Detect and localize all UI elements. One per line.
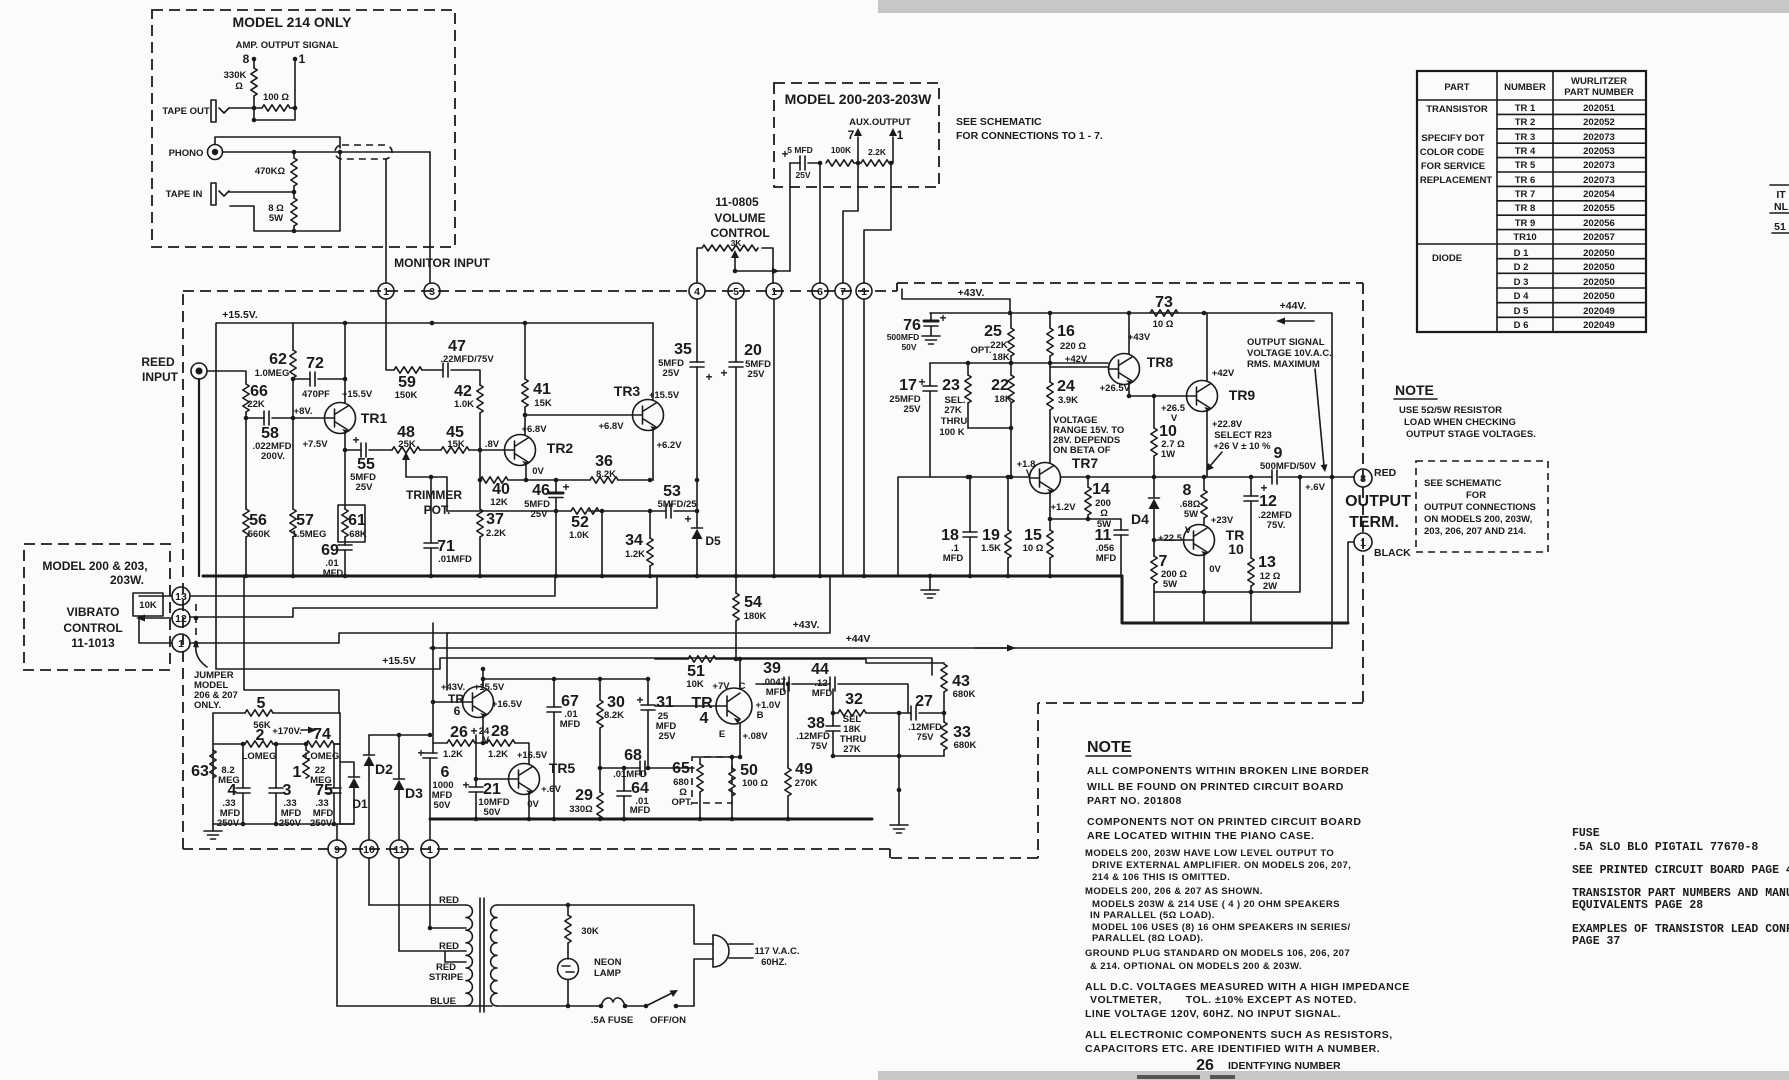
svg-text:THRU: THRU <box>941 416 968 427</box>
svg-text:100 Ω: 100 Ω <box>263 92 289 103</box>
svg-text:69: 69 <box>321 542 339 559</box>
svg-text:50: 50 <box>740 762 758 779</box>
svg-text:202056: 202056 <box>1583 218 1615 229</box>
svg-text:ALL D.C. VOLTAGES MEASURED WIT: ALL D.C. VOLTAGES MEASURED WITH A HIGH I… <box>1085 981 1410 993</box>
resistor 43 680K <box>941 664 947 692</box>
resistor 8 .68ohm 5W <box>1203 477 1205 490</box>
wire TR1 collector <box>344 323 346 403</box>
capacitor 53 5MFD/25 <box>666 504 671 518</box>
svg-text:3.9K: 3.9K <box>1058 395 1078 406</box>
svg-text:REPLACEMENT: REPLACEMENT <box>1420 175 1493 186</box>
svg-text:25V: 25V <box>659 731 677 742</box>
svg-text:TR8: TR8 <box>1147 354 1174 370</box>
svg-text:PART NUMBER: PART NUMBER <box>1564 87 1634 98</box>
svg-text:SEE SCHEMATIC: SEE SCHEMATIC <box>956 116 1042 128</box>
svg-text:58: 58 <box>261 425 279 442</box>
svg-text:13: 13 <box>175 591 187 603</box>
svg-text:75V: 75V <box>811 741 829 752</box>
svg-text:VIBRATO: VIBRATO <box>67 605 120 619</box>
terminal 8 RED <box>1354 469 1372 487</box>
svg-text:3: 3 <box>429 286 435 298</box>
svg-text:100 Ω: 100 Ω <box>742 778 768 789</box>
svg-text:66: 66 <box>250 383 268 400</box>
svg-text:202050: 202050 <box>1583 248 1615 259</box>
svg-text:OFF/ON: OFF/ON <box>650 1015 686 1026</box>
wire shield down <box>198 379 200 576</box>
svg-text:5: 5 <box>257 695 266 712</box>
resistor 33 680K <box>943 713 945 722</box>
resistor 57 1.5MEG <box>292 418 294 509</box>
wire TR10 emitter <box>1203 556 1205 593</box>
svg-text:+: + <box>684 512 691 526</box>
svg-text:56: 56 <box>249 512 267 529</box>
resistor 25 22K 18K <box>1010 313 1012 363</box>
ground lower right <box>890 825 908 833</box>
capacitor 69 .01MFD <box>344 537 346 545</box>
wire network to circle 9 <box>336 824 338 840</box>
wire tap <box>428 926 433 931</box>
svg-text:IDENTFYING NUMBER: IDENTFYING NUMBER <box>1228 1060 1341 1072</box>
svg-text:D5: D5 <box>705 534 721 548</box>
capacitor 44 .12MFD <box>830 677 835 691</box>
svg-text:49: 49 <box>795 761 813 778</box>
resistor 37 2.2K <box>477 509 483 537</box>
svg-text:203W.: 203W. <box>110 573 144 587</box>
resistor 23 SEL <box>967 363 969 428</box>
svg-text:7: 7 <box>840 286 846 298</box>
svg-text:52: 52 <box>571 514 589 531</box>
svg-text:.5A FUSE: .5A FUSE <box>591 1015 633 1026</box>
svg-text:27: 27 <box>915 693 933 710</box>
pot wiper <box>734 257 736 271</box>
svg-text:+43V.: +43V. <box>958 287 985 299</box>
wire <box>229 107 262 109</box>
svg-text:+16.5V: +16.5V <box>517 750 548 761</box>
svg-text:+.6V: +.6V <box>1305 482 1325 493</box>
svg-text:D4: D4 <box>1131 511 1149 527</box>
svg-text:28: 28 <box>491 723 509 740</box>
svg-text:E: E <box>719 729 725 740</box>
capacitor 39 .0047MFD <box>756 683 784 685</box>
svg-text:39: 39 <box>763 660 781 677</box>
resistor 470K <box>293 152 295 192</box>
svg-text:1: 1 <box>293 764 302 781</box>
capacitor 47 .22MFD/75V <box>443 363 448 377</box>
wire TR1 emitter <box>344 434 346 451</box>
wire monitor feeds <box>386 152 430 283</box>
svg-text:214 & 106 THIS IS OMITTED.: 214 & 106 THIS IS OMITTED. <box>1092 872 1230 883</box>
svg-text:36: 36 <box>595 453 613 470</box>
svg-text:FOR CONNECTIONS TO 1 - 7.: FOR CONNECTIONS TO 1 - 7. <box>956 130 1103 142</box>
svg-text:270K: 270K <box>795 778 818 789</box>
wire wiper to aux <box>735 270 790 272</box>
svg-text:ON MODELS 200, 203W,: ON MODELS 200, 203W, <box>1424 514 1532 525</box>
svg-text:OPT.: OPT. <box>970 345 991 356</box>
svg-text:25V: 25V <box>356 482 374 493</box>
svg-text:680K: 680K <box>953 689 976 700</box>
svg-text:2.2K: 2.2K <box>486 528 506 539</box>
resistor 42 1.0K <box>477 385 483 413</box>
svg-text:TR 7: TR 7 <box>1515 189 1536 200</box>
svg-text:+23V: +23V <box>1211 515 1234 526</box>
svg-text:NL: NL <box>1774 201 1789 213</box>
svg-text:202053: 202053 <box>1583 146 1615 157</box>
svg-text:MFD: MFD <box>1096 553 1117 564</box>
svg-text:TR 1: TR 1 <box>1515 103 1536 114</box>
wire red stripe <box>445 951 466 962</box>
resistor 5 56K <box>245 710 273 716</box>
svg-text:PHONO: PHONO <box>169 148 204 159</box>
svg-text:330Ω: 330Ω <box>569 804 593 815</box>
svg-text:ARE LOCATED WITHIN THE PIANO C: ARE LOCATED WITHIN THE PIANO CASE. <box>1087 830 1314 842</box>
wire columns 46 52 down to bus <box>556 511 602 576</box>
svg-text:47: 47 <box>448 338 466 355</box>
svg-text:9: 9 <box>1274 445 1283 462</box>
svg-text:1.5K: 1.5K <box>981 543 1001 554</box>
svg-text:1.5MEG: 1.5MEG <box>292 529 327 540</box>
parts table <box>1417 71 1646 332</box>
svg-text:60HZ.: 60HZ. <box>761 957 787 968</box>
capacitor 68 .01MFD <box>599 767 640 769</box>
svg-text:+: + <box>562 480 569 494</box>
svg-text:TR7: TR7 <box>1072 455 1099 471</box>
capacitor 17 25MFD 25V <box>929 363 931 386</box>
resistor 7 200ohm 5W <box>1151 556 1157 584</box>
svg-text:+1.2V: +1.2V <box>1050 502 1076 513</box>
svg-text:202050: 202050 <box>1583 262 1615 273</box>
svg-text:73: 73 <box>1155 294 1173 311</box>
svg-text:1: 1 <box>1360 537 1366 549</box>
neon lamp <box>558 959 579 980</box>
wire TR7 base <box>898 477 1030 576</box>
svg-text:4: 4 <box>228 782 237 799</box>
svg-text:USE 5Ω/5W RESISTOR: USE 5Ω/5W RESISTOR <box>1399 405 1502 416</box>
transistor TR8 <box>1109 354 1140 386</box>
svg-text:+.6V: +.6V <box>541 784 561 795</box>
svg-text:15K: 15K <box>534 398 552 409</box>
svg-text:11: 11 <box>393 844 404 856</box>
transistor TR10 <box>1184 525 1215 557</box>
capacitor 71 .01MFD <box>430 477 432 543</box>
note text block <box>1087 765 1369 842</box>
svg-text:MFD: MFD <box>766 687 787 698</box>
resistor 36 8.2K <box>526 479 590 481</box>
ground bus main <box>203 575 1122 578</box>
svg-text:TR 6: TR 6 <box>1515 175 1536 186</box>
svg-text:+43V.: +43V. <box>793 619 820 631</box>
svg-text:202073: 202073 <box>1583 175 1615 186</box>
svg-text:LOMEG: LOMEG <box>242 751 277 762</box>
svg-text:71: 71 <box>437 538 455 555</box>
svg-text:51: 51 <box>1774 221 1786 233</box>
transistor TR4 <box>716 688 752 724</box>
diode D1 <box>340 762 354 777</box>
wire TR4 base <box>655 705 716 707</box>
wire collector row lower <box>483 678 648 680</box>
svg-text:74: 74 <box>313 726 331 743</box>
svg-text:+42V: +42V <box>1065 354 1088 365</box>
svg-text:+44V: +44V <box>846 633 871 645</box>
svg-text:1: 1 <box>383 286 389 298</box>
right edge cut-off text fragments <box>1770 185 1789 233</box>
svg-text:9: 9 <box>334 844 340 856</box>
capacitor 58 .022MFD <box>264 411 269 425</box>
capacitor 64 .01MFD <box>623 768 625 791</box>
wire circle feeds to transformer <box>337 858 430 1006</box>
svg-text:1: 1 <box>771 286 777 298</box>
transformer secondary coil <box>491 905 497 1006</box>
resistor 50 100ohm <box>731 757 733 768</box>
svg-text:ONLY.: ONLY. <box>194 700 221 711</box>
resistor 100K aux <box>826 160 854 166</box>
svg-text:4: 4 <box>694 286 700 298</box>
svg-text:18K: 18K <box>992 352 1010 363</box>
svg-text:68: 68 <box>624 747 642 764</box>
resistor 24 3.9K <box>1049 363 1051 463</box>
wire staircase 13 <box>190 577 555 596</box>
wire TR4 emitter <box>739 723 741 757</box>
svg-text:OPT.: OPT. <box>671 797 692 808</box>
svg-text:OUTPUT SIGNAL: OUTPUT SIGNAL <box>1247 337 1325 348</box>
wire TR6 base <box>433 623 463 753</box>
thick bus lower amp <box>430 818 872 821</box>
terminal 1 BLACK <box>1348 542 1354 623</box>
svg-text:31: 31 <box>656 694 674 711</box>
svg-text:202073: 202073 <box>1583 160 1615 171</box>
trimmer pot 48 25K <box>392 447 420 453</box>
MODEL 214 ONLY dashed box <box>152 10 455 247</box>
svg-text:WURLITZER: WURLITZER <box>1571 76 1627 87</box>
svg-text:BLACK: BLACK <box>1374 547 1411 559</box>
capacitor 11 .056MFD <box>1114 530 1128 535</box>
resistor 29 330ohm <box>599 768 601 792</box>
svg-text:202057: 202057 <box>1583 232 1615 243</box>
svg-text:5W: 5W <box>1163 579 1177 590</box>
svg-text:TR 3: TR 3 <box>1515 132 1536 143</box>
svg-text:1: 1 <box>299 52 306 66</box>
svg-text:29: 29 <box>575 787 593 804</box>
wire 27 ground leg <box>898 713 900 825</box>
capacitor 72 470PF <box>310 372 315 386</box>
svg-text:+26.5V: +26.5V <box>1100 383 1131 394</box>
capacitor 18 .1MFD <box>969 477 971 532</box>
tape out jack <box>211 100 229 122</box>
wire TR2 collector to TR3 base <box>525 407 633 435</box>
capacitor 4 .33MFD <box>242 744 244 788</box>
svg-text:26: 26 <box>1196 1057 1214 1074</box>
wire D2 D3 tie <box>369 734 430 736</box>
wire 38 27 33 bottom tie <box>833 755 944 757</box>
svg-text:+22.8V: +22.8V <box>1212 419 1243 430</box>
svg-text:D3: D3 <box>405 785 423 801</box>
svg-text:1.0MEG: 1.0MEG <box>255 368 290 379</box>
capacitor 12 .22MFD 75V <box>1250 477 1252 496</box>
resistor 59 150K <box>386 299 394 370</box>
thick bus output bottom <box>1122 576 1348 623</box>
svg-text:42: 42 <box>454 383 472 400</box>
svg-text:+26 V ± 10 %: +26 V ± 10 % <box>1213 441 1271 452</box>
svg-text:.01MFD: .01MFD <box>438 554 472 565</box>
svg-text:INPUT: INPUT <box>142 370 179 384</box>
svg-text:+: + <box>939 311 946 325</box>
svg-text:202052: 202052 <box>1583 117 1615 128</box>
wire phono loop <box>215 137 430 152</box>
svg-text:24: 24 <box>1057 378 1075 395</box>
svg-text:33: 33 <box>953 724 971 741</box>
svg-text:COLOR CODE: COLOR CODE <box>1420 147 1484 158</box>
svg-text:202073: 202073 <box>1583 132 1615 143</box>
svg-text:VOLTMETER, TOL. ±10% EXC: VOLTMETER, TOL. ±10% EXCEPT AS NOTED. <box>1090 994 1357 1006</box>
svg-text:32: 32 <box>845 691 863 708</box>
svg-text:LINE VOLTAGE 120V, 60HZ. NO IN: LINE VOLTAGE 120V, 60HZ. NO INPUT SIGNAL… <box>1085 1008 1341 1020</box>
svg-text:22K: 22K <box>247 399 265 410</box>
svg-text:Ω: Ω <box>235 81 243 92</box>
svg-text:FOR SERVICE: FOR SERVICE <box>1421 161 1485 172</box>
fuse .5A <box>599 1004 604 1009</box>
transistor TR6 <box>463 687 494 719</box>
diode D4 <box>1153 477 1155 498</box>
svg-text:61: 61 <box>348 512 366 529</box>
svg-text:63: 63 <box>191 763 209 780</box>
resistor 30K <box>567 905 569 915</box>
svg-text:+: + <box>705 370 712 384</box>
capacitor 31 25MFD 25V <box>647 679 649 705</box>
svg-text:PARALLEL (8Ω LOAD).: PARALLEL (8Ω LOAD). <box>1092 933 1203 944</box>
svg-text:.22MFD/75V: .22MFD/75V <box>440 354 494 365</box>
svg-text:37: 37 <box>486 511 504 528</box>
svg-text:TRIMMER: TRIMMER <box>406 488 462 502</box>
svg-text:TR2: TR2 <box>547 440 574 456</box>
svg-text:4: 4 <box>700 710 709 727</box>
svg-text:.01MFD: .01MFD <box>613 769 647 780</box>
wire base row <box>930 362 1108 364</box>
svg-text:202054: 202054 <box>1583 189 1615 200</box>
svg-text:OUTPUT: OUTPUT <box>1345 493 1411 510</box>
svg-text:25V: 25V <box>748 369 766 380</box>
svg-text:17: 17 <box>899 377 917 394</box>
svg-text:5MFD/25: 5MFD/25 <box>657 499 697 510</box>
svg-text:1.2K: 1.2K <box>443 749 463 760</box>
secondary top wire <box>497 904 694 906</box>
resistor 28 1.2K <box>475 742 487 744</box>
osc rails <box>213 713 340 824</box>
resistor 100 ohm <box>262 105 290 111</box>
wire TR5 base <box>476 778 509 780</box>
svg-text:POT.: POT. <box>424 503 451 517</box>
svg-text:75: 75 <box>315 782 333 799</box>
svg-text:SELECT R23: SELECT R23 <box>1214 430 1272 441</box>
transistor TR1 <box>325 403 356 435</box>
svg-text:10 Ω: 10 Ω <box>1023 543 1044 554</box>
svg-text:+: + <box>1260 481 1267 495</box>
svg-text:FOR: FOR <box>1466 490 1486 501</box>
resistor 49 270K <box>787 684 789 768</box>
svg-text:TAPE IN: TAPE IN <box>166 189 203 200</box>
wire TR3 collector <box>652 323 654 400</box>
svg-text:STRIPE: STRIPE <box>429 972 463 983</box>
transistor TR7 <box>1030 463 1061 495</box>
svg-text:+: + <box>720 366 727 380</box>
wire TR8 emitter to TR9 base <box>1129 385 1187 397</box>
svg-text:25: 25 <box>984 323 1002 340</box>
svg-text:59: 59 <box>398 374 416 391</box>
svg-text:FUSE: FUSE <box>1572 827 1600 840</box>
svg-text:D 4: D 4 <box>1514 291 1530 302</box>
svg-text:CAPACITORS ETC. ARE IDENTIFIED: CAPACITORS ETC. ARE IDENTIFIED WITH A NU… <box>1085 1043 1380 1055</box>
svg-text:TR 9: TR 9 <box>1515 218 1536 229</box>
capacitor 75 .33MFD <box>334 744 340 788</box>
svg-text:8.2K: 8.2K <box>596 469 616 480</box>
svg-text:V: V <box>1171 413 1178 424</box>
wire 46 row <box>447 510 666 512</box>
svg-text:+6.8V: +6.8V <box>598 421 624 432</box>
resistor 45 15K <box>420 449 441 451</box>
resistor 330K <box>251 68 257 96</box>
svg-text:D 6: D 6 <box>1514 320 1529 331</box>
transistor TR9 <box>1187 381 1218 413</box>
MODEL 200 203 203W vibrato dashed box <box>24 544 170 670</box>
wire osc feed <box>244 576 339 713</box>
grey scan bar bottom <box>878 1071 1789 1080</box>
wire red mid <box>399 950 466 952</box>
resistor 1 22MEG <box>305 744 307 750</box>
svg-text:PART NO. 201808: PART NO. 201808 <box>1087 795 1182 807</box>
resistor 14 200ohm 5W <box>1087 477 1089 519</box>
svg-text:.5A SLO BLO PIGTAIL 77670-8: .5A SLO BLO PIGTAIL 77670-8 <box>1572 841 1758 854</box>
svg-text:+22.5: +22.5 <box>1158 533 1183 544</box>
svg-text:TR 4: TR 4 <box>1515 146 1536 157</box>
wire input <box>207 371 246 384</box>
transistor TR3 <box>633 400 664 432</box>
svg-text:PART: PART <box>1444 82 1469 93</box>
svg-text:1: 1 <box>861 286 867 298</box>
svg-text:+6.2V: +6.2V <box>656 440 682 451</box>
svg-text:10: 10 <box>363 844 375 856</box>
resistor 2 LOMEG <box>245 741 273 747</box>
svg-text:10: 10 <box>1228 541 1244 557</box>
capacitor 21 10MFD 50V <box>475 735 477 787</box>
capacitor 46 5MFD 25V <box>555 480 557 493</box>
svg-text:NOTE: NOTE <box>1395 382 1434 398</box>
terminal circles left column 13 12 1 <box>172 587 190 652</box>
svg-text:57: 57 <box>296 512 314 529</box>
wire 14 bottom row <box>1050 519 1121 530</box>
wire TR5 emitter <box>528 795 530 820</box>
svg-text:NUMBER: NUMBER <box>1504 82 1546 93</box>
svg-text:30: 30 <box>607 694 625 711</box>
wire TR2 emitter <box>525 465 527 481</box>
resistor 63 8.2MEG <box>210 750 216 778</box>
svg-text:560K: 560K <box>248 529 271 540</box>
svg-text:26: 26 <box>450 724 468 741</box>
capacitor 35 5MFD 25V <box>696 299 698 362</box>
svg-text:1.0K: 1.0K <box>454 399 474 410</box>
svg-text:MODEL 106 USES (8) 16 OHM SPEA: MODEL 106 USES (8) 16 OHM SPEAKERS IN SE… <box>1092 922 1351 933</box>
resistor 16 220ohm <box>1049 313 1051 363</box>
svg-text:IN PARALLEL (5Ω LOAD).: IN PARALLEL (5Ω LOAD). <box>1090 910 1215 921</box>
svg-text:10K: 10K <box>139 600 157 611</box>
svg-text:202049: 202049 <box>1583 306 1615 317</box>
wire staircase 1 <box>190 633 449 643</box>
svg-text:500MFD: 500MFD <box>887 332 920 342</box>
svg-text:& 214. OPTIONAL ON MODELS 200: & 214. OPTIONAL ON MODELS 200 & 203W. <box>1090 961 1302 972</box>
svg-text:AUX.OUTPUT: AUX.OUTPUT <box>849 117 911 128</box>
capacitor 38 .12MFD 75V <box>832 689 834 726</box>
svg-text:+15.5V.: +15.5V. <box>222 309 258 321</box>
svg-text:20: 20 <box>744 342 762 359</box>
svg-text:D1: D1 <box>352 797 368 811</box>
svg-text:7: 7 <box>848 128 855 142</box>
